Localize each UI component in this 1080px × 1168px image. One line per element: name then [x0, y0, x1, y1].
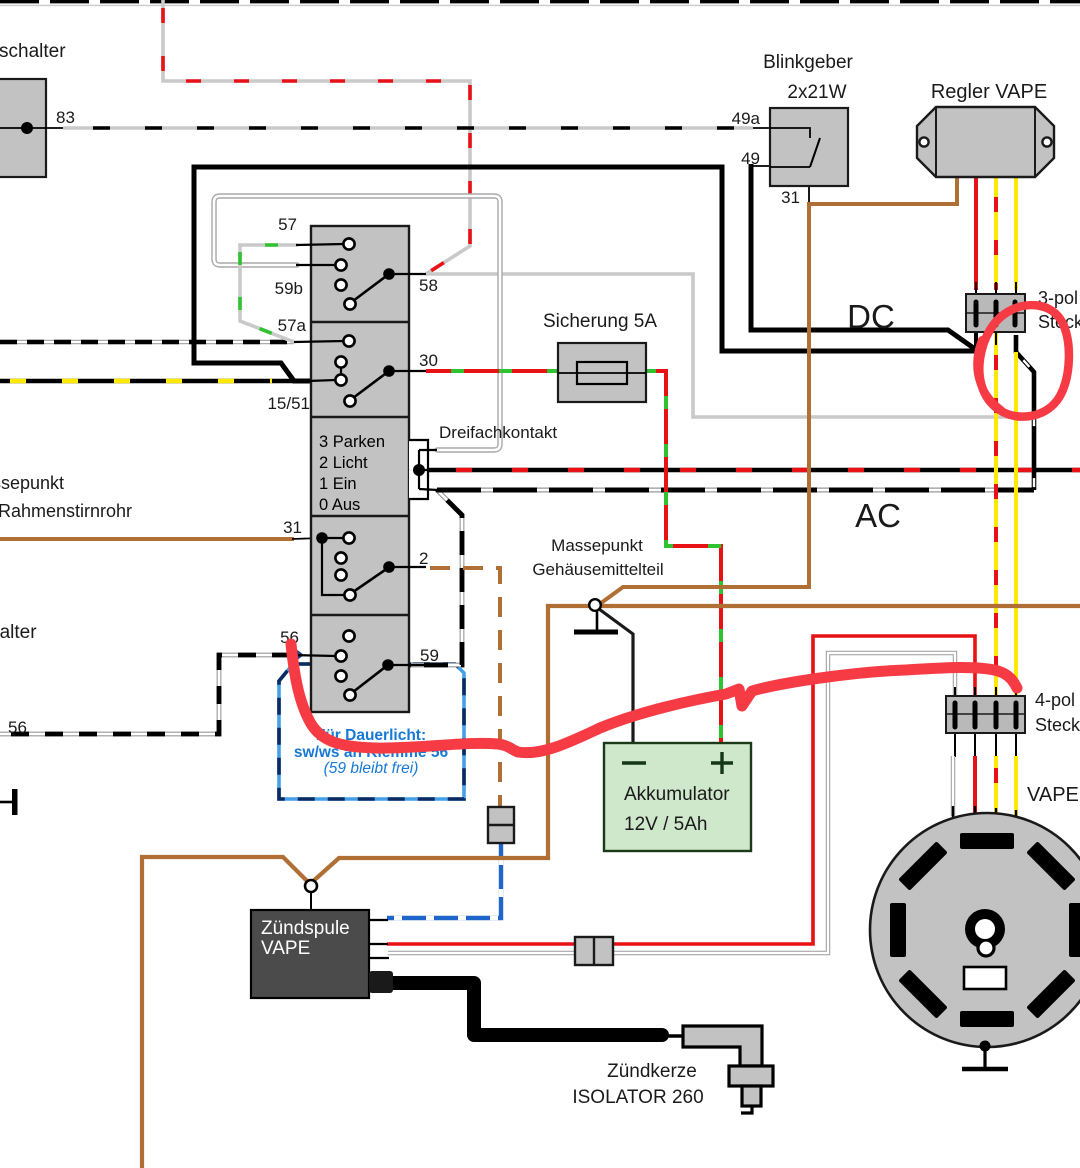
wire white loop to 59b (Dreifachkontakt top contact) — [214, 196, 500, 450]
svg-text:VAPE: VAPE — [261, 938, 310, 959]
connector 4-pol Stecker — [946, 696, 1025, 733]
wire gray/red to terminal 58 (from top edge) — [163, 0, 470, 274]
wire yellow/red from 3-pol to 4-pol — [994, 332, 998, 696]
ground alternator — [962, 1041, 1008, 1070]
svg-text:Zündkerze: Zündkerze — [607, 1061, 697, 1082]
svg-text:2: 2 — [419, 549, 428, 568]
svg-text:Rahmenstirnrohr: Rahmenstirnrohr — [0, 501, 132, 521]
wires 4-pol to alternator — [953, 732, 1016, 821]
wire red from Regler to 3-pol pin1 — [974, 175, 978, 290]
svg-text:31: 31 — [781, 188, 800, 207]
svg-text:30: 30 — [419, 351, 438, 370]
Dreifachkontakt bracket — [409, 440, 438, 499]
svg-text:schalter: schalter — [0, 41, 66, 62]
wire red Zuendspule to 4-pol pin2 — [387, 636, 975, 944]
wire 31 brown to switch — [0, 538, 322, 539]
svg-text:Sicherung 5A: Sicherung 5A — [543, 311, 657, 332]
svg-text:3 Parken: 3 Parken — [319, 433, 385, 451]
annotation red marker line 56 — [291, 644, 1017, 753]
svg-text:49: 49 — [741, 149, 760, 168]
svg-text:12V / 5Ah: 12V / 5Ah — [624, 814, 707, 835]
wire 56 (sw/ws to brake switch) — [0, 655, 296, 734]
svg-text:schalter: schalter — [0, 622, 37, 643]
svg-text:VAPE: VAPE — [1027, 784, 1079, 806]
wire AC black/red horizontal — [420, 468, 1080, 473]
switch box left (cut off) — [0, 79, 47, 177]
wire white Zuendspule to 4-pol pin1 — [388, 653, 955, 953]
svg-text:59: 59 — [420, 646, 439, 665]
svg-text:2 Licht: 2 Licht — [319, 454, 368, 472]
svg-text:1 Ein: 1 Ein — [319, 475, 357, 493]
svg-text:59b: 59b — [275, 279, 303, 298]
svg-text:4-pol: 4-pol — [1035, 690, 1075, 710]
switch position label 3 Parken 2 Licht 1 Ein 0 Aus — [319, 433, 385, 514]
annotation red circle on 3-pol connector — [979, 305, 1069, 417]
connector 3-pol Stecker — [966, 294, 1025, 332]
wire AC sw/ws horizontal (Dreifachkontakt to right) — [437, 488, 1034, 493]
svg-text:58: 58 — [419, 276, 438, 295]
svg-text:83: 83 — [56, 108, 75, 127]
pin stubs above 3-pol — [976, 282, 1016, 295]
wire gray 58 extension to sw/ws junction — [426, 274, 1034, 417]
wire red/green 30 from fuse to battery plus — [426, 371, 721, 745]
wire top sw/ws (black/white) along top edge — [0, 2, 1080, 6]
note text Fuer Dauerlicht — [294, 727, 449, 777]
svg-text:15/51: 15/51 — [267, 394, 310, 413]
switch section 57/59b/58 contacts — [296, 238, 426, 309]
svg-text:0 Aus: 0 Aus — [319, 496, 360, 514]
svg-text:DC: DC — [847, 298, 895, 335]
wire yellow from Regler to 3-pol pin3 — [1014, 175, 1018, 290]
ground stub bottom left — [0, 789, 18, 815]
ignition coil Zuendspule VAPE — [251, 910, 393, 998]
Regler VAPE box — [917, 107, 1054, 177]
wire brown from Regler 31 via Blinkgeber to Massepunkt — [597, 175, 957, 606]
ignition light switch column — [311, 226, 409, 712]
wire 83 to 49a (gray with black dashes) — [25, 127, 770, 129]
wire 15/51 (black with yellow dashes) — [0, 379, 294, 384]
svg-text:56: 56 — [8, 718, 27, 737]
wire 2 brown dashed to connector — [427, 568, 500, 810]
fuse Sicherung 5A — [558, 343, 646, 402]
note box Fuer Dauerlicht (blue dashed frame) — [279, 664, 464, 799]
node 56 terminal blue tick — [288, 649, 304, 661]
svg-text:Zündspule: Zündspule — [261, 918, 350, 939]
svg-text:Massepunkt: Massepunkt — [551, 536, 643, 555]
alternator VAPE stator — [870, 813, 1080, 1047]
svg-text:57: 57 — [278, 215, 297, 234]
wire gray/green 57 to 57a — [240, 245, 298, 342]
wire thick black DC feed from 15/51 — [194, 167, 977, 381]
svg-text:ISOLATOR 260: ISOLATOR 260 — [572, 1087, 703, 1108]
wire HT ignition cable — [393, 983, 684, 1036]
wire thick black from Blinkgeber 49 — [751, 164, 976, 352]
svg-text:49a: 49a — [732, 109, 761, 128]
wire yellow from 3-pol area to 4-pol — [1014, 352, 1018, 696]
wire 57a (white with black dashes) — [0, 340, 294, 344]
inline connector brown/blue — [488, 807, 514, 843]
battery Akkumulator — [604, 743, 751, 851]
switch section 56/59 contacts — [290, 630, 426, 700]
wire yellow/red from Regler to 3-pol pin2 — [994, 175, 998, 290]
wire blue/white from connector to Zuendspule — [387, 841, 501, 918]
svg-text:Akkumulator: Akkumulator — [624, 784, 730, 805]
switch section 57a/15-51/30 contacts — [294, 335, 426, 406]
node Y-junction above Zuendspule — [305, 880, 317, 910]
Blinkgeber relay box — [770, 108, 848, 186]
svg-text:31: 31 — [283, 518, 302, 537]
svg-text:Dreifachkontakt: Dreifachkontakt — [439, 423, 557, 442]
spark plug boot — [683, 1026, 773, 1113]
svg-text:Massepunkt: Massepunkt — [0, 473, 64, 493]
svg-text:57a: 57a — [278, 316, 307, 335]
svg-text:(59 bleibt frei): (59 bleibt frei) — [324, 760, 419, 777]
switch section 31/2 contacts — [316, 532, 426, 600]
svg-text:Blinkgeber: Blinkgeber — [763, 52, 853, 73]
wire 59 (sw/ws up to Dreifachkontakt) — [410, 490, 462, 665]
inline connector red/white pair — [575, 937, 613, 965]
svg-text:AC: AC — [855, 497, 901, 534]
wire sw/ws vertical from 3-pol right pin — [1016, 335, 1034, 490]
wire brown ground bus through Massepunkt — [142, 606, 1080, 1168]
MARKER-LAYER — [291, 305, 1069, 753]
svg-text:2x21W: 2x21W — [787, 82, 846, 103]
pin stubs above 4-pol — [955, 687, 1016, 697]
svg-text:Regler VAPE: Regler VAPE — [931, 81, 1047, 103]
svg-text:Stecker: Stecker — [1035, 715, 1080, 735]
svg-text:Gehäusemittelteil: Gehäusemittelteil — [532, 560, 663, 579]
node Massepunkt Gehaeusemittelteil — [574, 599, 633, 745]
